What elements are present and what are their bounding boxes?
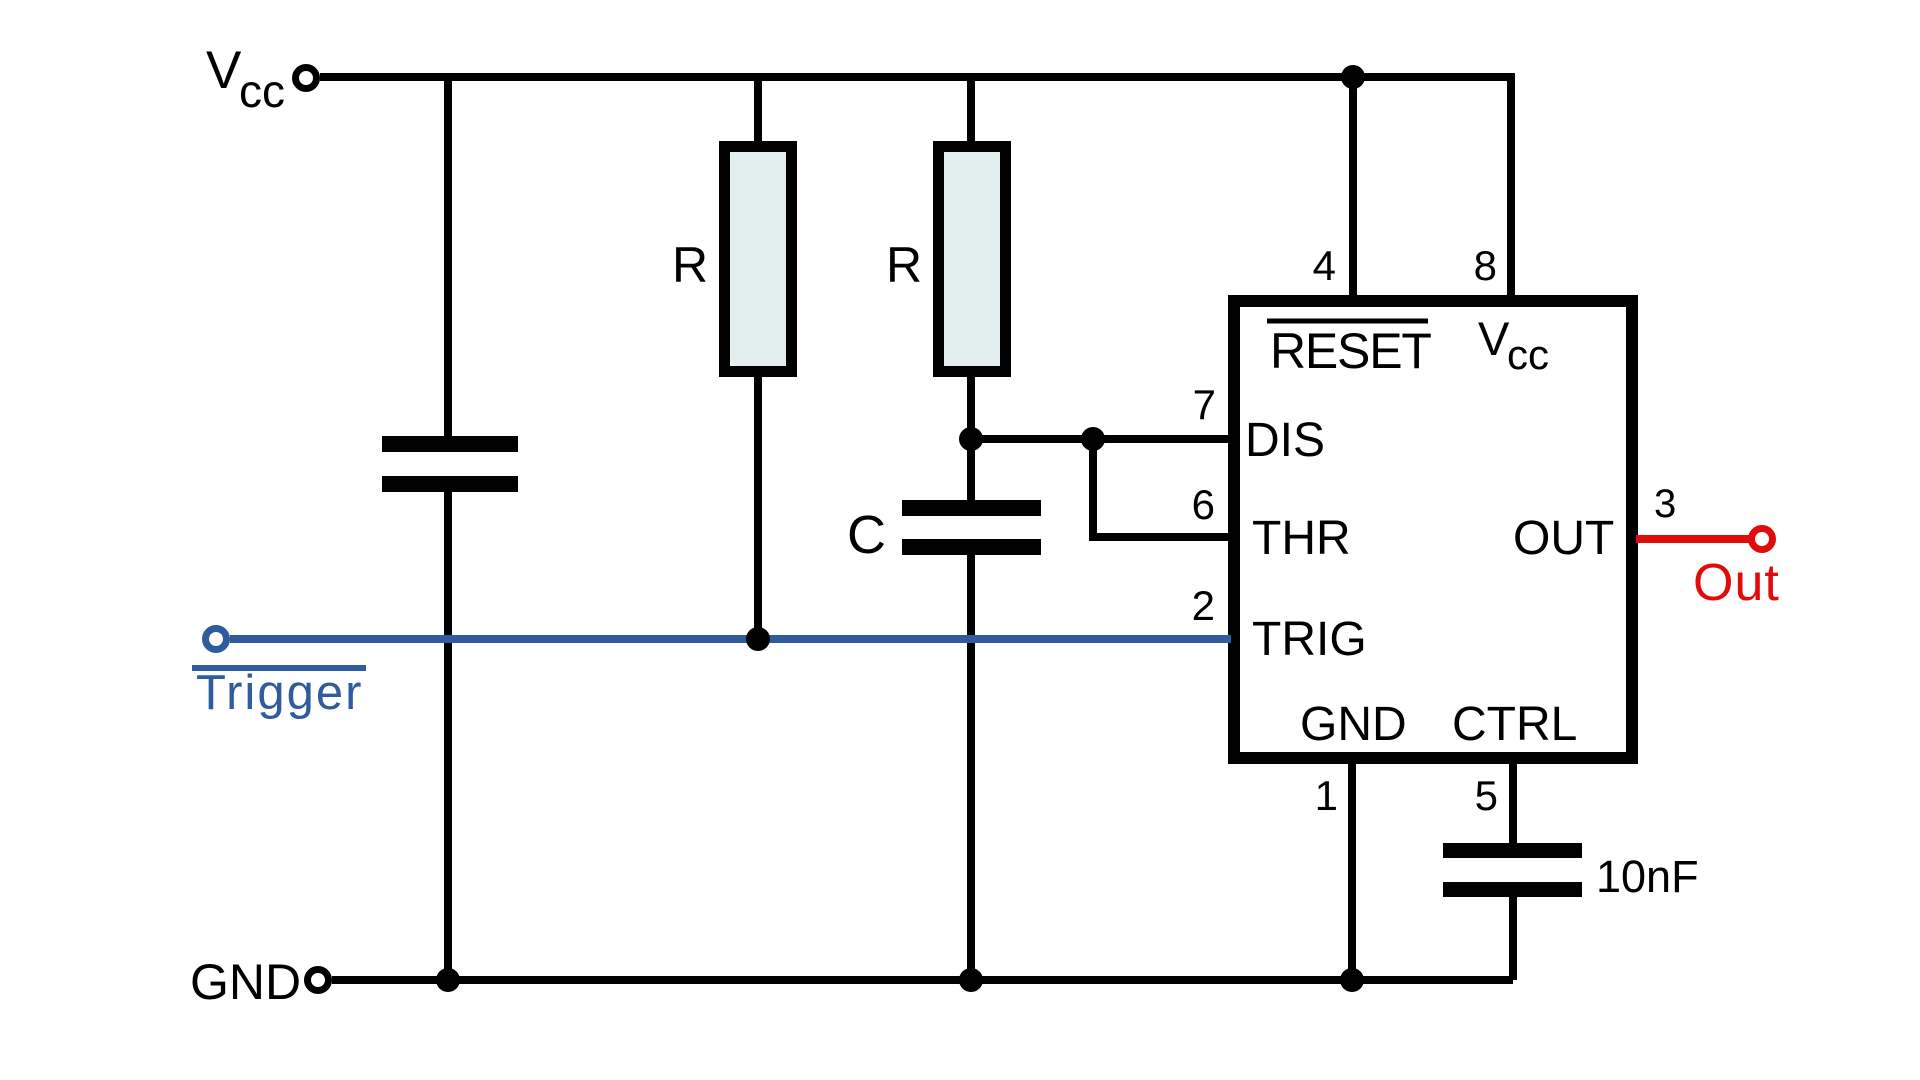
wire: R2 bottom lead to DIS node	[967, 372, 975, 443]
svg-text:10nF: 10nF	[1596, 851, 1699, 902]
svg-text:THR: THR	[1252, 512, 1351, 565]
svg-text:C: C	[847, 505, 886, 565]
node: junction GND / left branch	[436, 968, 460, 992]
wire: pin1 to GND	[1348, 758, 1356, 980]
wire: GND bottom rail	[332, 976, 1513, 984]
wire: trigger (blue)	[230, 635, 1231, 643]
capacitor C-bypass (left)	[382, 436, 518, 492]
wire: R1 bottom lead to trigger line	[754, 372, 762, 643]
node: junction top rail / pin4	[1341, 65, 1365, 89]
wire: THR jog	[1093, 439, 1231, 537]
svg-text:R: R	[886, 237, 922, 293]
wire: left vertical branch upper (Vcc to bypass cap)	[444, 77, 452, 438]
svg-text:CTRL: CTRL	[1452, 698, 1577, 751]
terminal GND	[308, 970, 329, 991]
svg-text:7: 7	[1193, 381, 1216, 428]
svg-text:V: V	[206, 41, 242, 100]
node: junction DIS/THR branch	[1081, 427, 1105, 451]
wire: pin5 to 10nF cap	[1509, 758, 1517, 845]
svg-text:8: 8	[1474, 242, 1497, 289]
svg-text:2: 2	[1192, 582, 1215, 629]
svg-text:1: 1	[1315, 772, 1338, 819]
capacitor 10nF	[1443, 843, 1582, 897]
wire: left vertical branch lower (bypass cap to GND)	[444, 490, 452, 980]
svg-text:cc: cc	[239, 65, 285, 117]
terminal Trigger (blue)	[206, 629, 227, 650]
capacitor C (timing)	[902, 500, 1041, 555]
svg-text:6: 6	[1192, 481, 1215, 528]
svg-text:4: 4	[1313, 242, 1336, 289]
svg-text:TRIG: TRIG	[1252, 613, 1367, 666]
svg-text:5: 5	[1475, 772, 1498, 819]
terminal Out (red)	[1752, 529, 1773, 550]
wire: 10nF to GND	[1509, 895, 1517, 980]
svg-text:R: R	[672, 237, 708, 293]
resistor R (right)	[939, 147, 1006, 372]
svg-text:Out: Out	[1693, 554, 1780, 612]
wire: R1 top lead	[754, 77, 762, 146]
svg-text:V: V	[1478, 312, 1510, 365]
wire: OUT red	[1636, 535, 1749, 543]
op-amp U1: 555 timer IC body	[1234, 301, 1632, 758]
wire: pin4 drop from top rail	[1349, 77, 1357, 300]
node: junction R2/C/DIS	[959, 427, 983, 451]
wire: Vcc top rail	[320, 77, 1511, 300]
svg-text:RESET: RESET	[1270, 323, 1431, 379]
svg-text:3: 3	[1654, 482, 1676, 526]
svg-text:GND: GND	[190, 954, 301, 1010]
svg-text:DIS: DIS	[1245, 414, 1325, 467]
wire: R2 top lead	[967, 77, 975, 146]
svg-text:Trigger: Trigger	[196, 666, 363, 720]
wire: DIS horizontal	[971, 435, 1231, 443]
node: junction trigger / R1	[746, 627, 770, 651]
wire: timing cap top lead	[967, 439, 975, 502]
terminal Vcc	[296, 68, 317, 89]
node: junction GND / pin1	[1340, 968, 1364, 992]
svg-text:OUT: OUT	[1513, 512, 1614, 565]
svg-text:GND: GND	[1300, 698, 1407, 751]
node: junction GND / timing cap	[959, 968, 983, 992]
resistor R (left)	[725, 147, 792, 372]
wire: timing cap bottom lead	[967, 553, 975, 980]
svg-text:cc: cc	[1507, 331, 1549, 378]
